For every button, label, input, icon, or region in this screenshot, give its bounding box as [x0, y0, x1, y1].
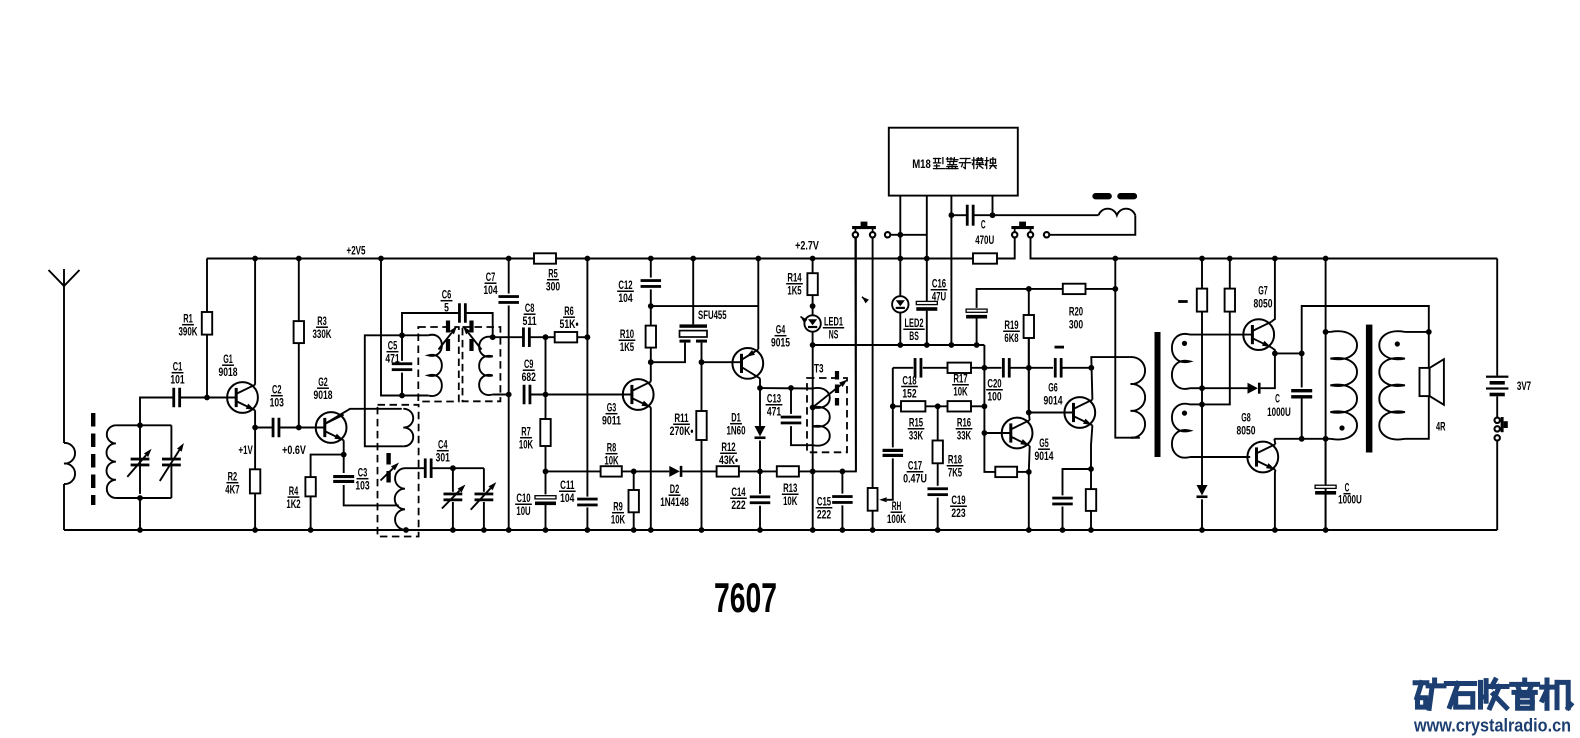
node C1000U top	[1299, 351, 1305, 357]
wire R20 to supply branch	[1086, 288, 1116, 290]
wire R17 to C20 node	[971, 367, 1002, 369]
terminal headphone jack	[1044, 232, 1049, 237]
svg-text:1K2: 1K2	[286, 498, 300, 511]
svg-text:270K•: 270K•	[670, 425, 694, 438]
node C20 coupling on line	[1026, 365, 1032, 371]
svg-text:G5: G5	[1039, 437, 1049, 450]
capacitor C6	[402, 313, 459, 335]
svg-text:R17: R17	[953, 373, 967, 386]
node R17/C20	[982, 365, 988, 371]
wire R6 right to rail line	[577, 336, 587, 338]
wire supply branch to driver primary	[1115, 289, 1139, 438]
svg-text:G8: G8	[1241, 412, 1251, 425]
IF transformer winding 1 box dashed	[418, 327, 459, 402]
capacitor C4	[424, 458, 427, 478]
transistor G5 9014	[1002, 418, 1033, 449]
svg-text:G7: G7	[1258, 285, 1268, 298]
svg-text:300: 300	[1069, 319, 1083, 332]
switch battery push button	[1495, 418, 1500, 423]
wire emitter node to bypass cap	[1063, 469, 1092, 495]
svg-text:NS: NS	[829, 329, 839, 342]
resistor R4	[311, 455, 344, 478]
svg-text:9018: 9018	[314, 389, 333, 402]
resistor bias B unlabeled	[1229, 259, 1231, 289]
wire G3 emitter to ground	[650, 407, 652, 530]
node C13 top	[788, 385, 794, 391]
node R8/R9 junction	[631, 469, 637, 475]
node R14 rail	[810, 256, 816, 262]
svg-text:0.47U: 0.47U	[903, 473, 927, 486]
wire G8 collector to output transformer wire	[1274, 439, 1275, 444]
svg-text:R5: R5	[548, 268, 558, 281]
wire G6 emitter down	[1091, 425, 1092, 469]
wire SW1 left to C15 node	[854, 237, 857, 471]
wire G2 emitter node	[343, 440, 345, 454]
variable capacitor osc gang section 1	[452, 468, 454, 492]
svg-text:471: 471	[385, 353, 400, 366]
wire secondary bottom to G8 base	[1190, 456, 1250, 458]
capacitor C2	[255, 427, 273, 429]
headphone coil	[1099, 209, 1136, 216]
capacitor C12	[650, 259, 652, 278]
resistor R8	[546, 470, 601, 472]
IF transformer winding 2 core slug	[469, 321, 473, 356]
svg-text:390K: 390K	[179, 326, 198, 339]
ferrite bar dashes above coil	[1096, 193, 1135, 199]
node oscillator winding to ground	[403, 527, 409, 533]
svg-text:C17: C17	[908, 460, 922, 473]
wire to volume line corner	[842, 237, 856, 471]
capacitor C14	[759, 471, 761, 494]
svg-text:152: 152	[902, 387, 916, 400]
svg-text:6K8: 6K8	[1004, 332, 1019, 345]
node LED1 bottom / audio line	[810, 342, 816, 348]
wire C7 line to ground	[508, 395, 510, 531]
wire G5 collector node to G6 base	[1029, 412, 1074, 414]
node secondary top return	[1199, 385, 1205, 391]
svg-text:C: C	[1275, 393, 1280, 406]
IF transformer winding 2 box dashed	[463, 327, 501, 401]
battery 3V7	[1496, 259, 1498, 376]
minus mark output bias	[1178, 300, 1188, 303]
capacitor C3	[343, 455, 345, 473]
svg-text:R15: R15	[909, 417, 924, 430]
wire tank takeoff up to C1	[140, 398, 173, 426]
output transformer secondary winding	[1379, 331, 1405, 439]
wire winding2 bottom to C9 node	[493, 394, 509, 396]
capacitor C17	[883, 449, 904, 452]
svg-text:43K•: 43K•	[719, 454, 738, 467]
svg-text:R16: R16	[957, 417, 972, 430]
svg-text:4K7: 4K7	[225, 484, 239, 497]
svg-text:C9: C9	[524, 358, 534, 371]
svg-text:C12: C12	[618, 279, 632, 292]
wire oscillator winding top to C4	[405, 467, 425, 469]
node R3 rail	[296, 256, 302, 262]
svg-text:470U: 470U	[975, 234, 994, 247]
node winding 2 top	[490, 334, 496, 340]
diode bootstrap D3	[1248, 383, 1258, 394]
svg-text:R14: R14	[787, 272, 802, 285]
wire cap to G6 collector line	[1061, 367, 1091, 369]
svg-text:10K: 10K	[611, 514, 626, 527]
node SFU455 output / R11	[699, 359, 705, 365]
wire G7 emitter to output node	[1271, 347, 1275, 353]
wire R7 to C10	[545, 446, 547, 494]
IF transformer winding 1	[402, 334, 428, 336]
speaker 4R	[1428, 332, 1430, 368]
wire collector node to T3	[760, 387, 813, 390]
svg-text:G1: G1	[223, 353, 233, 366]
svg-text:D2: D2	[670, 483, 680, 496]
wire C9 to G3 base	[530, 394, 632, 396]
resistor R10	[646, 326, 656, 348]
resistor R14	[812, 259, 814, 274]
wire power switch right to +3V7 rail	[1031, 237, 1498, 258]
capacitor C16 electrolytic	[926, 259, 928, 302]
capacitor bypass unlabeled	[1052, 497, 1073, 500]
svg-text:10K: 10K	[783, 495, 798, 508]
node tank top / C1 takeoff	[137, 422, 143, 428]
resistor R13	[760, 470, 777, 472]
node R15/C17	[890, 403, 896, 409]
wire coil to jack terminal	[1049, 215, 1135, 235]
svg-text:1N60: 1N60	[727, 425, 746, 438]
capacitor C 1000U supply filter	[1325, 439, 1327, 484]
wire C18 to R17	[923, 367, 948, 369]
driver transformer secondary top winding	[1172, 334, 1190, 389]
capacitor C20	[1002, 358, 1005, 378]
svg-text:C: C	[981, 218, 986, 231]
svg-text:C16: C16	[932, 278, 947, 291]
node G5 base takeoff	[982, 430, 988, 436]
wire C6 to winding 2	[466, 313, 493, 337]
diode bias to ground	[1201, 404, 1203, 485]
svg-text:LED2: LED2	[905, 317, 924, 330]
LED LED1 tuning indicator	[804, 315, 820, 331]
svg-text:R13: R13	[783, 482, 798, 495]
capacitor supply filter electrolytic unlabeled	[966, 309, 987, 312]
minus mark polarity	[1055, 346, 1065, 349]
svg-text:C8: C8	[525, 302, 535, 315]
svg-text:R4: R4	[289, 485, 299, 498]
ceramic filter SFU455	[680, 324, 708, 327]
svg-text:C5: C5	[388, 340, 398, 353]
svg-text:C6: C6	[442, 289, 452, 302]
node R10 top / C12	[648, 303, 654, 309]
wire tank bottom to ground	[139, 498, 141, 530]
svg-text:C10: C10	[516, 492, 530, 505]
svg-text:101: 101	[170, 374, 185, 387]
svg-text:LED1: LED1	[824, 316, 843, 329]
wire supply branch to rail	[1114, 259, 1116, 289]
wire R16 right	[971, 405, 984, 407]
svg-text:G6: G6	[1048, 382, 1058, 395]
svg-text:C14: C14	[731, 486, 746, 499]
svg-text:10U: 10U	[516, 505, 530, 518]
resistor R5 in rail	[534, 253, 556, 263]
svg-text:104: 104	[618, 292, 633, 305]
tuning coil secondary winding	[107, 425, 116, 498]
capacitor C18	[914, 358, 917, 378]
resistor R1	[206, 259, 208, 313]
svg-text:682: 682	[522, 371, 536, 384]
node R15/R16/R18	[935, 403, 941, 409]
wire D3 to output node	[1261, 353, 1275, 388]
capacitor C 470U	[951, 214, 966, 216]
node R16 right	[982, 403, 988, 409]
wire tank bottom	[116, 497, 171, 499]
phasing dot secondary bottom	[1182, 411, 1187, 416]
svg-text:C18: C18	[902, 374, 917, 387]
wire T3 line vertical	[812, 345, 814, 530]
svg-text:R7: R7	[521, 426, 531, 439]
svg-text:100: 100	[987, 391, 1001, 404]
wire module pin2	[926, 196, 928, 259]
wire output node to C1000U	[1275, 352, 1302, 354]
wire switch line to RH pot	[872, 237, 874, 488]
svg-text:R9: R9	[613, 501, 623, 514]
node LED2 audio line	[897, 342, 903, 348]
node osc gang VC1	[450, 465, 456, 471]
variable capacitor tuning gang section 1	[139, 425, 141, 494]
node pin1	[897, 232, 903, 238]
svg-text:7K5: 7K5	[948, 467, 963, 480]
capacitor C 1000U output coupling	[1301, 353, 1303, 387]
svg-text:C7: C7	[486, 271, 496, 284]
svg-text:RH: RH	[892, 500, 902, 513]
capacitor C13	[790, 388, 792, 414]
resistor R12	[717, 466, 739, 476]
wire R13 to T3 line	[799, 470, 843, 472]
wire C8 to R6	[530, 336, 555, 338]
capacitor C11	[577, 498, 598, 501]
svg-text:www.crystalradio.cn: www.crystalradio.cn	[1413, 714, 1571, 735]
wire R15 to R16	[925, 405, 947, 407]
svg-text:301: 301	[436, 452, 451, 465]
svg-text:C15: C15	[817, 496, 832, 509]
wire G2 collector to oscillator feedback coil	[325, 409, 402, 424]
node feedback box right	[1026, 469, 1032, 475]
svg-text:R8: R8	[607, 442, 617, 455]
wire G6 collector to driver transformer	[1091, 357, 1130, 400]
wire G1 emitter down	[254, 410, 256, 427]
resistor R11	[701, 362, 703, 411]
wire audio line to C18 corner	[813, 344, 985, 346]
svg-text:8050: 8050	[1254, 298, 1273, 311]
node R7/C10/R8	[543, 469, 549, 475]
svg-text:C4: C4	[438, 439, 448, 452]
svg-text:1K5: 1K5	[620, 341, 635, 354]
wire audio line corner down to C20 node	[983, 345, 985, 433]
svg-text:SFU455: SFU455	[698, 309, 727, 322]
node G5 collector / G6 base / R19	[1026, 410, 1032, 416]
oscillator coil box dashed	[378, 405, 419, 537]
svg-text:9018: 9018	[219, 366, 238, 379]
node R3 bottom	[296, 425, 302, 431]
wire C1 to G1 base	[181, 397, 236, 399]
node pin1 rail	[897, 256, 903, 262]
transformer T3 box dashed	[807, 378, 847, 452]
wire G3 collector to R10	[650, 348, 652, 382]
node tank bottom	[137, 495, 143, 501]
svg-text:+0.6V: +0.6V	[282, 444, 306, 457]
wire D1 to AGC line	[759, 441, 761, 472]
node G6 emitter	[1088, 466, 1094, 472]
capacitor C8	[493, 336, 524, 338]
oscillator tuned winding	[395, 468, 405, 530]
resistor R7	[545, 395, 547, 420]
node C5 top	[399, 332, 405, 338]
svg-text:222: 222	[731, 499, 745, 512]
wire SFU455 input pin	[651, 343, 685, 363]
wire G8 emitter to ground	[1274, 470, 1277, 530]
svg-text:1K5: 1K5	[787, 285, 802, 298]
resistor R15	[893, 405, 901, 407]
resistor R19	[1028, 338, 1030, 413]
wire feedback winding return to C5 node	[365, 335, 404, 446]
wire rail down through R6 node to C11	[586, 259, 588, 497]
svg-text:+2V5: +2V5	[347, 245, 366, 258]
wire top rail to power switch left	[997, 237, 1015, 258]
wire module pin1	[899, 196, 901, 235]
svg-text:+1V: +1V	[238, 444, 252, 457]
svg-text:R18: R18	[948, 454, 963, 467]
node C9 junction on C7 line	[506, 392, 512, 398]
transistor G2 9018	[316, 412, 347, 443]
wire LED2 to audio line	[899, 313, 901, 345]
svg-text:T3: T3	[814, 362, 824, 375]
wire pin1 node to pin2 line	[900, 234, 927, 236]
wire bias B to winding node	[1202, 312, 1230, 405]
svg-text:R2: R2	[228, 471, 238, 484]
output transformer primary winding	[1326, 331, 1331, 333]
svg-text:C19: C19	[951, 494, 966, 507]
phasing dot primary	[1339, 425, 1344, 430]
wire elco to audio line	[976, 319, 978, 346]
switch SW2 power push button	[1012, 232, 1017, 237]
wire bootstrap feedback to speaker	[1302, 306, 1429, 353]
transformer T3 winding	[813, 388, 830, 446]
resistor unlabeled in rail near power switch	[973, 253, 997, 263]
wire R11 to ground	[701, 440, 703, 530]
wire C2 to G2 base	[279, 427, 325, 429]
node G7 collector rail	[1272, 256, 1278, 262]
svg-text:BS: BS	[909, 330, 919, 343]
wire G5 emitter to ground	[1028, 446, 1031, 530]
svg-text:511: 511	[522, 315, 537, 328]
svg-text:9015: 9015	[771, 337, 790, 350]
svg-text:100K: 100K	[887, 513, 906, 526]
capacitor C1	[172, 388, 175, 408]
node G4 collector / D1 / detector	[757, 385, 763, 391]
capacitor C5	[392, 362, 413, 365]
phasing dot secondary top	[1182, 341, 1187, 346]
wire +2V5 top supply rail (left section)	[207, 258, 534, 260]
node pin3 audio line	[949, 342, 955, 348]
node bias B rail	[1227, 256, 1233, 262]
svg-text:G3: G3	[607, 402, 617, 415]
transistor G6 9014	[1064, 397, 1095, 428]
svg-text:51K•: 51K•	[560, 318, 579, 331]
node output transformer line rail	[1323, 256, 1329, 262]
resistor bias A unlabeled	[1201, 259, 1203, 289]
wire SFU455 top pin to rail	[692, 259, 694, 325]
driver transformer core	[1155, 332, 1161, 457]
wire module pin3	[950, 196, 952, 216]
wire R8 to D2	[622, 470, 670, 472]
svg-text:223: 223	[951, 507, 966, 520]
svg-text:C1: C1	[173, 361, 183, 374]
node on G6 collector line	[1088, 365, 1094, 371]
transistor G1 9018	[227, 382, 258, 413]
svg-text:C2: C2	[272, 384, 282, 397]
transistor G7 8050	[1243, 319, 1274, 350]
node elco bottom on audio line	[974, 342, 980, 348]
output transformer core	[1366, 325, 1373, 453]
driver transformer primary winding	[1131, 357, 1146, 438]
potentiometer RH 100K	[868, 488, 878, 511]
svg-text:D1: D1	[731, 412, 741, 425]
wire C20 to R19 line	[1010, 367, 1029, 369]
capacitor C15	[841, 471, 843, 493]
node output midpoint	[1272, 351, 1278, 357]
node C8/R6	[543, 334, 549, 340]
svg-text:1N4148: 1N4148	[660, 496, 689, 509]
transistor G4 9015	[732, 348, 763, 379]
svg-text:5: 5	[444, 302, 449, 315]
wire C470U to headphone coil	[974, 214, 1099, 216]
node rail at R6/C11 line	[585, 256, 591, 262]
node secondary bottom	[1199, 402, 1205, 408]
wire secondary top return	[1190, 387, 1202, 389]
resistor R9	[633, 471, 635, 490]
variable capacitor osc gang section 2	[483, 468, 485, 492]
wire LED1 to detector output line	[812, 332, 814, 345]
svg-text:33K: 33K	[909, 430, 924, 443]
svg-text:47U: 47U	[932, 291, 946, 304]
node primary top	[1323, 329, 1329, 335]
capacitor C7	[508, 259, 510, 294]
oscillator feedback winding	[403, 409, 413, 447]
wire secondary top to G7 base	[1190, 334, 1252, 336]
svg-text:8050: 8050	[1237, 425, 1256, 438]
wire D2 to R12	[682, 470, 716, 472]
LED LED2 bluetooth indicator	[899, 259, 901, 297]
svg-text:33K: 33K	[957, 430, 972, 443]
transistor G8 8050	[1247, 442, 1278, 473]
wire pin3 down to audio line	[950, 215, 952, 345]
oscillator core slug	[386, 453, 390, 487]
wire G5 collector up	[1028, 413, 1031, 421]
wire C17 top to R15 node	[892, 368, 894, 448]
svg-text:104: 104	[560, 492, 575, 505]
wire R18 to C19	[937, 463, 939, 486]
node SFU455 on G3 collector line	[648, 359, 654, 365]
T3 core slug	[835, 371, 839, 406]
wire RH pot to ground	[872, 511, 874, 530]
wire to G5 base	[984, 432, 1010, 434]
wire tank top	[116, 424, 171, 426]
svg-text:R11: R11	[674, 412, 689, 425]
svg-text:3V7: 3V7	[1517, 380, 1531, 393]
svg-text:R10: R10	[620, 328, 634, 341]
svg-text:C13: C13	[767, 393, 782, 406]
node C15 top	[840, 469, 846, 475]
svg-text:222: 222	[817, 509, 831, 522]
watermark crystalradio logo	[1415, 680, 1427, 685]
svg-text:R12: R12	[721, 441, 735, 454]
